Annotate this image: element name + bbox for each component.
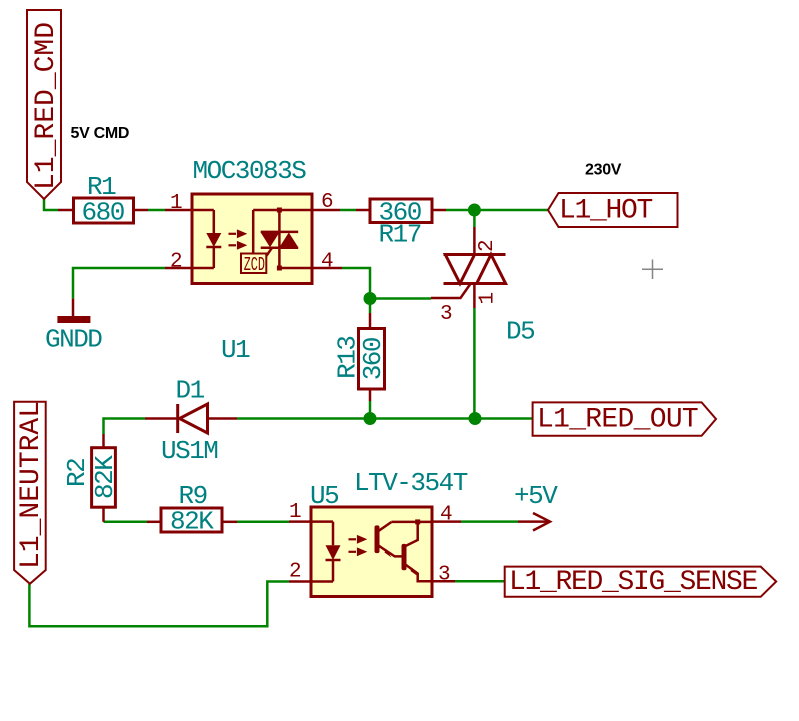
svg-text:L1_RED_CMD: L1_RED_CMD <box>31 22 62 190</box>
svg-text:GNDD: GNDD <box>45 325 102 355</box>
svg-text:680: 680 <box>82 198 124 228</box>
svg-text:2: 2 <box>476 239 499 252</box>
svg-text:6: 6 <box>321 191 334 214</box>
svg-text:US1M: US1M <box>161 436 217 466</box>
svg-text:LTV-354T: LTV-354T <box>354 468 468 498</box>
svg-text:L1_RED_OUT: L1_RED_OUT <box>537 405 698 436</box>
svg-text:3: 3 <box>440 303 453 326</box>
svg-text:+5V: +5V <box>514 481 558 511</box>
svg-text:4: 4 <box>440 504 453 527</box>
svg-text:U5: U5 <box>310 481 338 511</box>
svg-text:360: 360 <box>358 338 388 380</box>
svg-text:82K: 82K <box>90 455 120 499</box>
svg-text:4: 4 <box>321 251 334 274</box>
svg-text:1: 1 <box>170 192 183 215</box>
svg-text:L1_HOT: L1_HOT <box>559 196 653 227</box>
svg-text:5V CMD: 5V CMD <box>71 125 130 142</box>
svg-text:1: 1 <box>289 501 302 524</box>
svg-text:R17: R17 <box>379 220 421 250</box>
svg-text:D5: D5 <box>506 317 534 347</box>
svg-text:L1_NEUTRAL: L1_NEUTRAL <box>16 401 47 569</box>
svg-text:3: 3 <box>438 564 451 587</box>
svg-text:D1: D1 <box>176 376 205 406</box>
svg-text:ZCD: ZCD <box>244 255 265 277</box>
svg-text:2: 2 <box>289 561 302 584</box>
svg-text:1: 1 <box>477 292 500 305</box>
svg-text:U1: U1 <box>221 335 250 365</box>
svg-text:MOC3083S: MOC3083S <box>193 156 307 186</box>
svg-text:230V: 230V <box>585 162 622 179</box>
svg-text:2: 2 <box>170 251 183 274</box>
svg-text:L1_RED_SIG_SENSE: L1_RED_SIG_SENSE <box>509 567 758 598</box>
svg-text:82K: 82K <box>170 507 214 537</box>
svg-text:R2: R2 <box>62 459 92 487</box>
